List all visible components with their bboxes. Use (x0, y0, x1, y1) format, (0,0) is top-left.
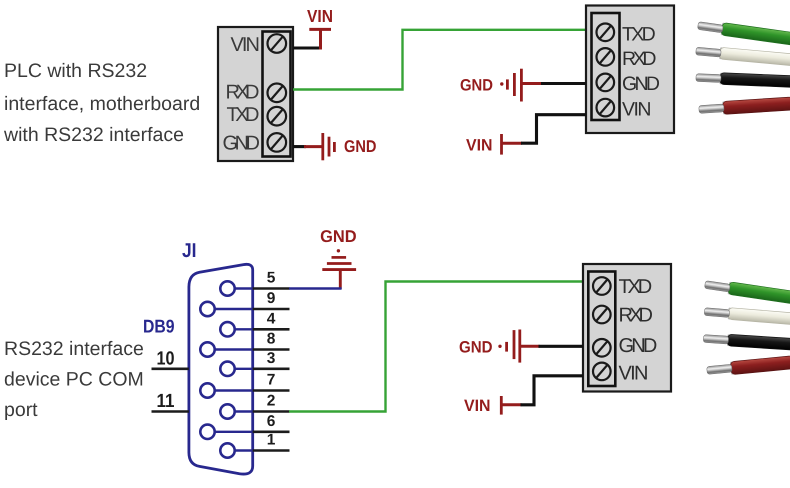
svg-text:port: port (4, 399, 38, 421)
svg-text:VIN: VIN (619, 363, 649, 385)
wire G2 to TB2 GND (541, 82, 586, 85)
node 11 stub (152, 410, 189, 413)
TB1 pin labels (223, 34, 261, 155)
screw terminal TB3 GND (593, 339, 611, 357)
svg-text:9: 9 (267, 290, 276, 307)
photo wire white (top) (695, 45, 790, 67)
battery-style ground G1 (304, 133, 334, 160)
node 10 stub (152, 367, 189, 370)
photo wire black (bottom) (703, 333, 790, 352)
photo wire white (bottom) (704, 306, 790, 327)
screw terminal TB3 TXD (593, 277, 611, 295)
svg-text:GND: GND (344, 137, 377, 156)
svg-text:11: 11 (157, 391, 175, 412)
terminal block TB3 (bottom right) (583, 264, 671, 392)
svg-text:RXD: RXD (622, 48, 657, 70)
pin 3 (220, 362, 252, 376)
svg-text:interface, motherboard: interface, motherboard (4, 93, 200, 115)
svg-text:RXD: RXD (619, 304, 654, 326)
pin 2 lead stub (253, 410, 290, 413)
svg-text:RXD: RXD (226, 82, 260, 104)
screw terminal TB3 VIN (593, 363, 611, 381)
svg-text:device PC COM: device PC COM (4, 369, 144, 391)
photo wire red (bottom) (706, 353, 790, 376)
pin 4 lead stub (253, 328, 290, 331)
pin 1 (220, 443, 252, 457)
svg-text:7: 7 (267, 372, 276, 389)
pin 9 (200, 302, 252, 316)
svg-text:2: 2 (267, 393, 276, 410)
svg-text:GND: GND (460, 77, 493, 95)
screw terminal TB1 GND (268, 133, 287, 152)
svg-text:TXD: TXD (619, 276, 653, 298)
pin 8 (200, 342, 252, 356)
svg-text:TXD: TXD (227, 104, 260, 126)
svg-text:PLC with RS232: PLC with RS232 (4, 60, 147, 82)
power flag VIN (top) (309, 29, 331, 49)
svg-text:TXD: TXD (622, 24, 656, 46)
svg-text:4: 4 (267, 310, 276, 327)
pin 5 (220, 281, 252, 295)
photo wire green (top) (697, 19, 790, 47)
svg-text:GND: GND (619, 335, 658, 357)
screw terminal TB2 VIN (597, 99, 615, 117)
photo wire black (top) (696, 72, 790, 88)
svg-text:VIN: VIN (464, 397, 491, 415)
pin 9 lead stub (253, 308, 290, 311)
pin 4 (220, 322, 252, 336)
svg-text:10: 10 (157, 348, 175, 369)
TB3 pin labels (619, 276, 658, 384)
wire G3 to TB3 GND (539, 345, 584, 348)
photo wire green (bottom) (704, 278, 790, 307)
pin 7 lead stub (253, 389, 290, 392)
pin 2 (220, 404, 252, 418)
caption: RS232 interface device PC COM port (4, 338, 144, 421)
DB9 connector shell (189, 264, 253, 474)
pin 6 lead stub (253, 430, 290, 433)
screw terminal TB1 RXD (268, 84, 287, 103)
pin 3 lead stub (253, 367, 290, 370)
wire TB1 VIN to VIN flag (293, 46, 321, 49)
pin 6 (200, 425, 252, 439)
terminal block TB2 (top right) (586, 6, 674, 134)
svg-text:GND: GND (223, 133, 261, 155)
screw terminal TB2 GND (597, 74, 615, 92)
wire VIN flag to TB2 VIN (521, 115, 586, 144)
wire pin5 to earth GND (navy) (289, 287, 342, 289)
wire TB1 GND to battery GND (293, 145, 306, 148)
svg-text:RS232 interface: RS232 interface (4, 338, 144, 360)
wire pin2 to TB3 TXD (green) (289, 282, 588, 412)
pin 5 lead stub (253, 287, 290, 290)
svg-text:GND: GND (320, 227, 357, 246)
svg-text:1: 1 (267, 432, 276, 449)
svg-text:GND: GND (622, 73, 660, 95)
svg-text:6: 6 (267, 413, 276, 430)
svg-text:3: 3 (267, 350, 276, 367)
wire RXD to TXD (green, top) (293, 30, 592, 90)
screw terminal TB2 TXD (597, 24, 615, 42)
screw terminal TB2 RXD (597, 48, 615, 66)
caption: PLC with RS232 interface, motherboard with RS232 interface (3, 60, 200, 146)
svg-text:JI: JI (182, 240, 197, 262)
TB2 pin labels (622, 24, 660, 121)
svg-text:VIN: VIN (307, 6, 333, 26)
screw terminal TB1 TXD (268, 107, 287, 126)
svg-text:VIN: VIN (466, 137, 493, 155)
terminal block TB1 (PLC side) (218, 27, 293, 161)
wire VIN flag to TB3 VIN (521, 376, 584, 405)
svg-text:GND: GND (459, 339, 493, 357)
svg-text:VIN: VIN (231, 34, 261, 56)
svg-text:VIN: VIN (622, 98, 652, 120)
svg-text:DB9: DB9 (143, 316, 175, 337)
screw terminal TB1 VIN (268, 34, 287, 53)
pin 8 lead stub (253, 348, 290, 351)
svg-text:8: 8 (267, 331, 276, 348)
svg-text:5: 5 (267, 270, 276, 287)
photo wire red (top) (699, 96, 790, 116)
svg-text:with RS232 interface: with RS232 interface (3, 124, 184, 146)
pin 7 (200, 383, 252, 397)
pin 1 lead stub (253, 449, 290, 452)
screw terminal TB3 RXD (593, 306, 611, 324)
